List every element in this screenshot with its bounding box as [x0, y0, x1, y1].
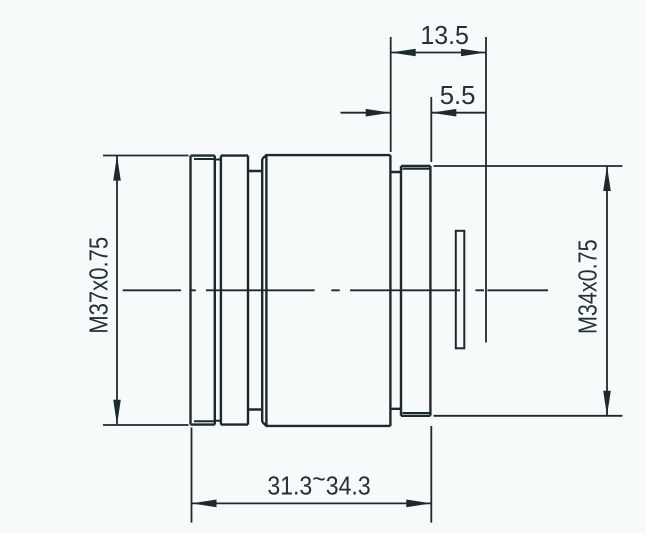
neck surface between flange2 and main body: [248, 171, 262, 410]
dim 31.3 extension right: [430, 426, 432, 523]
centerline (dash-dot axis): [123, 289, 548, 291]
arrow M34 top: [603, 166, 611, 191]
face edge flange1/groove: [214, 156, 216, 425]
thread minor line bottom (M34): [403, 412, 431, 414]
dim M34 dimension line: [606, 166, 608, 416]
svg-text:13.5: 13.5: [420, 21, 469, 50]
dim M37 extension top: [103, 155, 189, 157]
svg-text:M37x0.75: M37x0.75: [85, 237, 114, 334]
dim M34 extension top: [434, 165, 623, 167]
svg-text:M34x0.75: M34x0.75: [574, 239, 603, 334]
flange2 collar: [221, 156, 248, 425]
dim 5.5 dimension line right tail: [431, 112, 486, 114]
face edge groove/flange2: [220, 156, 222, 425]
dim 13.5 extension line left: [390, 37, 392, 152]
dim 5.5 extension line: [430, 97, 432, 162]
dim 31.3 extension left: [191, 428, 193, 523]
arrow M37 top: [113, 156, 121, 181]
thread minor line top (M37): [194, 158, 215, 160]
bottom outline with chamfer: [262, 422, 390, 426]
rear thread section M34: [401, 166, 430, 416]
dim 5.5 dimension line left tail: [341, 112, 391, 114]
arrow 5.5 pointing right: [366, 109, 391, 117]
dim M34 extension bottom: [434, 415, 623, 417]
arrow 13.5 right: [461, 49, 486, 57]
arrow 31.3 right: [406, 500, 431, 508]
dim 13.5 extension line right / reference plane: [485, 37, 487, 343]
svg-text:5.5: 5.5: [440, 82, 476, 110]
groove surface top: [215, 159, 221, 161]
dim 31.3 dimension line: [192, 502, 432, 504]
arrow M37 bottom: [113, 400, 121, 425]
thread minor line top (M34): [403, 168, 431, 170]
dim M37 extension bottom: [103, 424, 189, 426]
rear face: [429, 166, 431, 416]
dim 13.5 dimension line: [391, 52, 486, 54]
top outline with chamfer: [262, 155, 390, 159]
arrow 13.5 left: [391, 49, 416, 57]
arrow M34 bottom: [603, 391, 611, 416]
groove surface bottom: [215, 420, 221, 422]
flange M37 (front thread section): [191, 156, 263, 425]
arrow 5.5 pointing left: [431, 109, 456, 117]
rear neck: [390, 172, 401, 409]
main knurled body: [262, 155, 390, 426]
thread minor line bottom (M37): [194, 420, 215, 422]
arrow 31.3 left: [192, 500, 217, 508]
thin disc (image plane glass): [456, 231, 465, 348]
chamfer circle edge: [265, 155, 267, 426]
left face edge (chamfered): [261, 159, 263, 422]
dim M37 dimension line: [116, 156, 118, 426]
right face: [389, 155, 391, 426]
